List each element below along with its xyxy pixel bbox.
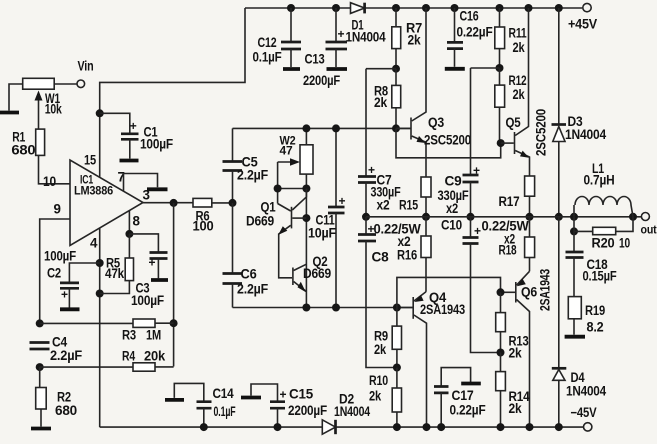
resistor R20	[574, 217, 633, 251]
svg-text:0.7µH: 0.7µH	[584, 173, 615, 188]
node R15/R16 output rail junction	[422, 213, 430, 221]
wire W2 wiper tie	[278, 162, 307, 204]
node C14 rail junction	[200, 423, 208, 431]
svg-text:1M: 1M	[146, 328, 161, 343]
svg-text:0.22µF: 0.22µF	[457, 25, 493, 40]
svg-text:2.2µF: 2.2µF	[237, 282, 268, 297]
svg-text:2SA1943: 2SA1943	[538, 269, 553, 311]
svg-text:Q1: Q1	[261, 200, 277, 215]
node pin4 C2 junction	[96, 259, 104, 267]
svg-text:C15: C15	[289, 387, 314, 402]
resistor R16	[374, 217, 432, 292]
node R9 junction on lower rail	[393, 304, 401, 312]
svg-text:R12: R12	[509, 73, 527, 88]
svg-text:C16: C16	[460, 9, 479, 24]
svg-text:10k: 10k	[45, 102, 63, 117]
svg-text:Q3: Q3	[428, 115, 444, 130]
svg-text:+: +	[474, 224, 481, 238]
svg-text:+: +	[130, 119, 137, 133]
node D4 rail junction	[555, 423, 563, 431]
node Q4 collector rail junction	[423, 423, 431, 431]
svg-text:C12: C12	[258, 35, 277, 50]
node Q6 base junction	[497, 288, 505, 296]
node Q2 emitter to rail	[302, 304, 310, 312]
node wiper junction	[274, 185, 282, 193]
diode D4	[552, 217, 607, 427]
node R12 Q5 base junction	[497, 139, 505, 147]
svg-text:C9: C9	[445, 174, 462, 189]
wire pin 3 output	[143, 202, 193, 204]
diode D2	[322, 392, 370, 435]
svg-text:2k: 2k	[513, 87, 526, 102]
node top rail junctions	[287, 4, 295, 12]
potentiometer W1	[9, 78, 77, 129]
svg-text:−45V: −45V	[571, 405, 597, 420]
capacitor C1	[100, 113, 173, 160]
svg-text:2k: 2k	[369, 389, 382, 404]
capacitor C9	[438, 68, 481, 217]
svg-text:15: 15	[84, 153, 97, 168]
svg-text:0.1µF: 0.1µF	[253, 50, 282, 65]
node R14 rail junction	[497, 423, 505, 431]
node L1 left junction	[570, 213, 578, 221]
svg-text:Q6: Q6	[521, 285, 537, 300]
svg-text:C2: C2	[47, 266, 61, 281]
wire bottom -45V rail left segment	[100, 426, 323, 428]
svg-text:x2: x2	[377, 198, 390, 213]
node R13/R14 bootstrap junction	[497, 349, 505, 357]
resistor R6	[193, 198, 232, 233]
node R8 base rail junction	[392, 124, 400, 132]
resistor R13	[496, 292, 529, 360]
svg-text:R15: R15	[399, 198, 419, 213]
svg-text:2.2µF: 2.2µF	[237, 168, 268, 183]
svg-text:C13: C13	[305, 52, 325, 67]
node W2 bottom junction	[302, 185, 310, 193]
svg-text:R20: R20	[592, 236, 615, 251]
terminal Vin	[77, 59, 94, 88]
capacitor C10	[441, 217, 501, 353]
capacitor C2	[44, 249, 100, 310]
capacitor C7	[358, 69, 401, 217]
svg-text:2200µF: 2200µF	[303, 73, 340, 88]
terminal +45V	[568, 3, 597, 31]
svg-text:0.1µF: 0.1µF	[214, 404, 236, 419]
svg-text:R17: R17	[499, 194, 520, 209]
svg-text:10: 10	[619, 236, 630, 251]
resistor R14	[496, 353, 530, 428]
potentiometer W2	[278, 128, 313, 188]
wire Q4/Q6 base tie	[397, 277, 501, 307]
wire lower driver rail y=307.5	[233, 307, 413, 309]
node Q6 collector rail junction	[526, 423, 534, 431]
svg-text:+45V: +45V	[568, 17, 597, 32]
wire +V feed down-left from top rail	[100, 8, 245, 178]
svg-text:Q5: Q5	[506, 115, 522, 130]
wire top +45V rail right segment	[365, 7, 583, 9]
node C9/C10 output rail junction	[467, 213, 475, 221]
resistor R1	[11, 129, 70, 184]
node C17 rail junction	[437, 423, 445, 431]
svg-text:R16: R16	[397, 248, 417, 263]
node R6 to C5/C6 column	[229, 199, 237, 207]
svg-text:C10: C10	[441, 218, 462, 233]
svg-text:C17: C17	[452, 388, 474, 403]
capacitor C12	[253, 8, 302, 69]
resistor R18	[482, 217, 535, 271]
resistor R15	[399, 177, 431, 217]
wire feedback column	[173, 203, 175, 367]
svg-text:R19: R19	[585, 303, 605, 318]
svg-text:+: +	[368, 163, 375, 177]
node C11 top junction	[332, 124, 340, 132]
svg-text:+: +	[280, 388, 287, 402]
wire Q1/Q2 collector column	[305, 189, 307, 308]
resistor R8	[374, 69, 401, 129]
svg-text:R11: R11	[509, 26, 528, 41]
capacitor C11	[308, 128, 346, 307]
node R9/R10 bootstrap junction	[393, 364, 401, 372]
svg-text:10: 10	[43, 174, 56, 189]
svg-text:1N4004: 1N4004	[334, 404, 371, 419]
node C15 rail junction	[274, 423, 282, 431]
svg-text:+: +	[338, 27, 345, 41]
svg-text:680: 680	[55, 403, 77, 418]
node C11 bottom junction	[332, 304, 340, 312]
svg-text:Vin: Vin	[78, 59, 94, 74]
node pin8 junction	[125, 230, 133, 238]
svg-text:8: 8	[133, 214, 141, 229]
svg-text:0.15µF: 0.15µF	[583, 269, 617, 284]
node R20 left junction	[570, 227, 578, 235]
svg-text:680: 680	[11, 143, 35, 158]
svg-text:1N4004: 1N4004	[565, 127, 607, 142]
capacitor C16	[445, 8, 493, 69]
svg-text:0.22µF: 0.22µF	[450, 403, 486, 418]
wire upper driver rail y=128	[233, 127, 412, 129]
node L1 right junction	[629, 213, 637, 221]
svg-text:+: +	[61, 288, 68, 302]
svg-text:8.2: 8.2	[587, 320, 604, 335]
resistor R9	[374, 308, 402, 368]
svg-text:R4: R4	[122, 349, 136, 364]
wire bootstrap tap to C7	[366, 68, 396, 70]
terminal -45V	[571, 405, 597, 431]
capacitor C8	[358, 217, 397, 368]
svg-text:2k: 2k	[509, 401, 523, 416]
svg-text:R18: R18	[499, 243, 518, 258]
node R7/R8 bootstrap junction	[392, 65, 400, 73]
resistor R19	[568, 297, 605, 335]
ground at pin 7	[147, 187, 168, 191]
svg-text:out: out	[641, 225, 657, 237]
wire pin 7 to ground	[124, 174, 158, 192]
svg-text:R10: R10	[369, 373, 388, 388]
resistor R7	[392, 8, 422, 69]
svg-text:1N4004: 1N4004	[346, 30, 387, 45]
svg-text:D669: D669	[303, 266, 331, 281]
ground at W1	[0, 111, 19, 115]
svg-text:2SC5200: 2SC5200	[534, 109, 549, 156]
op-amp IC1 LM3886 triangle	[43, 153, 150, 251]
transistor Q5 2SC5200	[501, 8, 549, 176]
capacitor C14	[165, 383, 236, 427]
svg-text:x2: x2	[446, 201, 458, 216]
svg-text:D669: D669	[246, 214, 274, 229]
svg-text:C6: C6	[241, 267, 257, 282]
resistor R3	[40, 319, 174, 343]
wire pin 8 stub	[128, 211, 130, 234]
svg-text:100µF: 100µF	[44, 249, 76, 264]
wire top +45V rail left segment	[245, 7, 351, 9]
wire bottom -45V rail right segment	[336, 426, 584, 428]
ground at R19	[565, 335, 585, 339]
svg-text:2.2µF: 2.2µF	[50, 348, 82, 363]
capacitor C3	[129, 234, 168, 308]
diode D3	[552, 8, 607, 217]
resistor R4	[40, 349, 174, 372]
svg-text:2SC5200: 2SC5200	[424, 133, 471, 148]
transistor Q4 2SA1943	[397, 290, 465, 427]
node R11/R12 bootstrap junction	[496, 64, 504, 72]
svg-text:2SA1943: 2SA1943	[420, 302, 465, 317]
terminal out	[641, 213, 657, 237]
capacitor C4	[30, 335, 83, 364]
capacitor C5	[223, 128, 269, 203]
resistor R2	[36, 367, 77, 426]
svg-text:2k: 2k	[374, 342, 387, 357]
node junction C1 tap	[96, 109, 104, 117]
diode D1	[346, 3, 387, 45]
node R10 rail junction	[393, 423, 401, 431]
node feedback R3 junction	[170, 319, 178, 327]
inductor L1	[574, 161, 633, 217]
svg-text:R3: R3	[122, 328, 136, 343]
svg-text:10µF: 10µF	[308, 226, 336, 241]
resistor R11	[495, 8, 527, 68]
svg-text:2k: 2k	[374, 95, 388, 110]
transistor Q1 D669	[246, 189, 306, 278]
transistor Q6 2SA1943	[501, 269, 553, 427]
svg-text:2200µF: 2200µF	[288, 403, 327, 418]
svg-text:C14: C14	[213, 386, 235, 401]
node output R6 junction	[170, 199, 178, 207]
wire bootstrap tap to C9	[471, 67, 500, 69]
ground at R2	[31, 427, 51, 431]
node pin4 R5 junction	[96, 290, 104, 298]
svg-text:100µF: 100µF	[140, 137, 173, 152]
capacitor C17	[434, 368, 486, 428]
node R17/R18 output rail junction	[526, 213, 534, 221]
node C7/C8 output rail junction	[362, 213, 370, 221]
svg-text:47: 47	[280, 144, 294, 158]
svg-text:47k: 47k	[105, 266, 125, 281]
svg-text:+: +	[149, 256, 156, 270]
resistor R10	[369, 368, 402, 428]
resistor R12	[495, 68, 527, 143]
capacitor C13	[303, 8, 347, 88]
svg-text:20k: 20k	[144, 349, 166, 364]
transistor Q2 D669	[293, 254, 331, 292]
capacitor C6	[223, 203, 269, 308]
svg-text:2k: 2k	[408, 33, 422, 48]
svg-text:100: 100	[193, 219, 214, 234]
svg-text:C8: C8	[372, 250, 390, 265]
node D3/D4 output rail junction	[555, 213, 563, 221]
transistor Q3 2SC5200	[396, 8, 471, 177]
capacitor C15	[241, 384, 327, 427]
svg-text:1N4004: 1N4004	[566, 384, 607, 399]
node Q1 collector junction	[302, 214, 310, 222]
wire pin 9 stub	[40, 219, 70, 323]
svg-text:100µF: 100µF	[131, 293, 164, 308]
svg-text:2k: 2k	[509, 346, 523, 361]
svg-text:4: 4	[90, 236, 98, 251]
wire pin 4 column	[99, 228, 101, 427]
wire output rail	[366, 216, 641, 218]
capacitor C18	[566, 217, 617, 297]
resistor R17	[499, 176, 535, 217]
svg-text:2k: 2k	[513, 40, 526, 55]
svg-text:LM3886: LM3886	[74, 184, 113, 198]
wire Q3/Q5 base tie	[396, 128, 501, 157]
node C4 top junction	[36, 319, 44, 327]
resistor R5	[100, 234, 134, 294]
node C4 bottom junction	[36, 363, 44, 371]
node W2 top junction	[302, 124, 310, 132]
svg-text:9: 9	[54, 202, 61, 217]
